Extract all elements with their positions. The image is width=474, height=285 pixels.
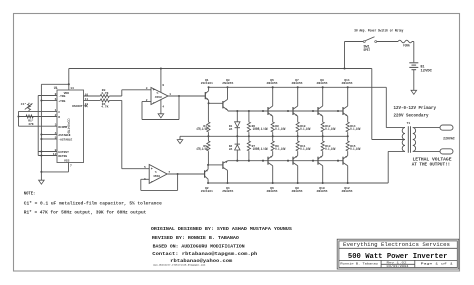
ground left [40, 172, 42, 180]
node Q12 base [337, 160, 339, 162]
potentiometer R2 [28, 103, 31, 112]
svg-text:Page 1 of 1: Page 1 of 1 [421, 262, 453, 266]
svg-text:4.7K: 4.7K [101, 106, 108, 109]
svg-text:2SC1061: 2SC1061 [201, 82, 213, 85]
svg-text:5: 5 [144, 166, 146, 169]
wire pin 3 row [19, 125, 58, 127]
svg-text:2SC1061: 2SC1061 [201, 190, 213, 193]
battery B1 [409, 62, 418, 64]
svg-text:4558: 4558 [155, 95, 162, 99]
node Q5 base [262, 110, 264, 112]
transistor Q7 2N3055 [292, 107, 294, 115]
resistor R1* [26, 115, 33, 118]
wire collector bus bottom to primary [388, 151, 405, 183]
diode D1 [236, 111, 238, 122]
ground op-amp A [158, 114, 164, 118]
wire +12V rail [69, 68, 372, 70]
wire secondary top lead [413, 127, 440, 129]
wire Q2 emitter to Q4 base [208, 164, 223, 166]
node Q3 collector junction [226, 86, 228, 88]
node D1 bottom [236, 135, 238, 137]
wire RC left vertical [18, 111, 20, 126]
resistor R14 emitter upper [347, 116, 349, 121]
wire VDD drop to pin 14 [68, 69, 70, 91]
svg-text:-TRG: -TRG [58, 95, 65, 98]
transistor Q3 2N3055 [222, 101, 224, 108]
svg-text:ORIGINAL DESIGNED BY: SYED ASH: ORIGINAL DESIGNED BY: SYED ASHAD MUSTAFA… [151, 226, 292, 232]
node pin9 junction [40, 150, 42, 152]
node Q5 collector [272, 86, 274, 88]
wire collector bus bottom [208, 182, 388, 184]
node ground junction [40, 171, 42, 173]
wire op-amp A output [168, 95, 205, 97]
svg-text:2A: 2A [229, 148, 233, 151]
wire pin 4 stub [41, 134, 57, 136]
wire ground mid bus [180, 135, 348, 137]
svg-text:+TRG: +TRG [58, 100, 65, 103]
svg-text:4: 4 [162, 106, 164, 109]
wire Q1 emitter to Q3 base [209, 102, 223, 104]
svg-text:C: C [58, 111, 60, 114]
svg-text:2N3055: 2N3055 [317, 82, 328, 85]
node VDD branch junction [68, 83, 70, 85]
resistor R7 [248, 151, 250, 160]
svg-text:2N3055: 2N3055 [267, 190, 278, 193]
node Q7 base [287, 110, 289, 112]
switch SW1 [345, 41, 364, 43]
node R6 bottom [248, 135, 250, 137]
node R7 top [248, 160, 250, 162]
node D2 top [236, 160, 238, 162]
svg-text:0.1,10W: 0.1,10W [325, 128, 336, 132]
transistor Q11 2N3055 [342, 107, 344, 115]
wire pin 7 to ground bus [41, 163, 68, 172]
svg-text:2N3055: 2N3055 [292, 82, 303, 85]
node rail opamp junction [160, 67, 162, 69]
svg-text:47R,1/4W: 47R,1/4W [196, 127, 208, 132]
wire R4 to op-amp B [109, 100, 149, 168]
node mid R10 [297, 135, 299, 137]
node mid R8 [272, 135, 274, 137]
resistor R5 driver lower [207, 151, 209, 165]
diode D2 [236, 150, 238, 161]
transistor Q9 2N3055 [317, 107, 319, 115]
svg-text:+: + [153, 89, 155, 93]
svg-text:EXTRST: EXTRST [58, 151, 69, 154]
svg-text:30 Amp. Power Switch or Relay: 30 Amp. Power Switch or Relay [354, 28, 403, 33]
svg-text:0.1,10W: 0.1,10W [275, 128, 286, 132]
svg-text:2N3055: 2N3055 [222, 82, 233, 85]
svg-text:7: 7 [70, 164, 72, 167]
wire battery to ground [413, 70, 415, 91]
wire op-amp A inverting input [142, 101, 151, 103]
transistor Q8 2N3055 [292, 157, 294, 165]
node pin5 junction [40, 138, 42, 140]
svg-text:0.1,10W: 0.1,10W [300, 148, 311, 152]
node Q1 collector junction [208, 86, 210, 88]
wire collector bus top [209, 86, 387, 88]
node mid R14 [347, 135, 349, 137]
node rail-switch junction [343, 67, 345, 69]
svg-text:03/03/2004: 03/03/2004 [387, 264, 409, 268]
node mid R12 [322, 135, 324, 137]
svg-text:0.1,10W: 0.1,10W [325, 148, 336, 152]
node Q4 collector junction [226, 182, 228, 184]
svg-text:Rev 1.02: Rev 1.02 [387, 262, 407, 265]
node Q2 collector junction [207, 182, 209, 184]
transistor Q4 2N3055 [222, 161, 224, 169]
svg-text:2N3055: 2N3055 [267, 82, 278, 85]
wire left bus A [37, 96, 39, 156]
wire secondary bottom lead [413, 150, 440, 152]
wire op-amp A feedback [142, 96, 179, 120]
fuse F30A [398, 40, 412, 43]
node Q10 collector [322, 182, 324, 184]
svg-text:-ASTABLE: -ASTABLE [58, 139, 72, 142]
resistor R13 emitter lower [322, 151, 324, 155]
svg-text:NOTE:: NOTE: [24, 192, 36, 197]
svg-text:+: + [151, 168, 153, 172]
node op-amp A output junction [178, 95, 180, 97]
resistor R6 [248, 111, 250, 122]
svg-text:8: 8 [162, 84, 164, 87]
transistor Q2 2SC1061 [204, 170, 206, 177]
op-amp U2B [149, 165, 167, 184]
wire op-amp B inverting input [141, 178, 149, 180]
wire pin 11 row [84, 99, 101, 101]
terminal output top [440, 125, 453, 130]
resistor R3 [100, 94, 109, 97]
wire center tap riser [372, 69, 405, 140]
resistor R9 emitter lower [272, 151, 274, 155]
wire pin 1 row [19, 110, 58, 112]
resistor R10 emitter upper [297, 116, 299, 121]
resistor R8 emitter upper [272, 116, 274, 121]
wire switch riser [344, 42, 346, 69]
wire left bus B (VDD side) [40, 84, 42, 172]
svg-text:VSS: VSS [64, 159, 70, 162]
wire op-amp A V+ riser [160, 69, 162, 93]
node Q6 base [262, 160, 264, 162]
pin 13 no-connect X [84, 105, 87, 107]
resistor R11 emitter lower [297, 151, 299, 155]
transistor Q6 2N3055 [267, 157, 269, 165]
node Q10 base [312, 160, 314, 162]
node Q12 collector [347, 182, 349, 184]
wire pin 12 stub [38, 155, 57, 157]
svg-text:Ronnie B. Tabanao: Ronnie B. Tabanao [340, 262, 378, 266]
title block cell divider left [380, 260, 382, 267]
node Q8 base [287, 160, 289, 162]
svg-text:220V Secondary: 220V Secondary [394, 114, 429, 119]
wire collector bus top to primary [386, 87, 405, 127]
svg-text:-: - [153, 101, 155, 105]
wire pin 2 row [19, 116, 58, 118]
resistor R15 emitter lower [347, 151, 349, 155]
wire pin 9 stub [38, 151, 57, 153]
node D1 top [236, 110, 238, 112]
wire VDD branch to left bus [41, 83, 68, 85]
wire op-amp B output [167, 173, 205, 175]
resistor R4 [100, 99, 109, 102]
transformer T1 secondary winding [413, 128, 416, 152]
svg-text:C1*: C1* [21, 102, 27, 106]
node Q2 emitter junction [207, 164, 209, 166]
svg-text:3: 3 [146, 87, 148, 90]
svg-text:47R,1/4W: 47R,1/4W [196, 147, 208, 152]
node Q11 collector [347, 86, 349, 88]
node Q9 collector [322, 86, 324, 88]
svg-text:4.7K: 4.7K [101, 92, 108, 95]
svg-text:U1: U1 [54, 86, 58, 90]
svg-text:100R,1/4W: 100R,1/4W [253, 147, 269, 152]
svg-text:-: - [151, 180, 153, 184]
wire ground mid stem [179, 136, 181, 139]
node Q7 collector [297, 86, 299, 88]
node pin4 junction [40, 133, 42, 135]
svg-text:12V-0-12V Primary: 12V-0-12V Primary [394, 106, 437, 111]
title block inner box [339, 241, 457, 268]
title block cell divider right [414, 260, 416, 267]
svg-text:2N3055: 2N3055 [342, 82, 353, 85]
svg-text:0.1,10W: 0.1,10W [350, 148, 361, 152]
transistor Q10 2N3055 [317, 157, 319, 165]
svg-text:RCOMM: RCOMM [58, 126, 67, 129]
node Q11 base [337, 110, 339, 112]
svg-text:Contact: rbtabanao@tapgsm.com.: Contact: rbtabanao@tapgsm.com.ph [152, 251, 257, 257]
svg-text:REVISED BY: RONNIE B. TABANAO: REVISED BY: RONNIE B. TABANAO [152, 235, 239, 241]
svg-text:Everything Electronics Service: Everything Electronics Services [343, 241, 450, 248]
svg-text:R: R [58, 116, 60, 119]
svg-text:2N3055: 2N3055 [342, 190, 353, 193]
svg-text:0.1,10W: 0.1,10W [300, 128, 311, 132]
svg-text:2N3055: 2N3055 [222, 190, 233, 193]
svg-text:220VAC: 220VAC [443, 136, 455, 140]
wire op-amp A V- stem [160, 100, 162, 114]
svg-text:2A: 2A [229, 128, 233, 131]
op-amp U2A [151, 88, 168, 105]
title block rev divider [381, 263, 415, 265]
svg-text:4558: 4558 [153, 174, 160, 178]
svg-text:14: 14 [70, 87, 74, 90]
svg-text:2N3055: 2N3055 [292, 190, 303, 193]
svg-text:RETRG: RETRG [58, 155, 67, 158]
node Q8 collector [297, 182, 299, 184]
svg-text:100R,1/4W: 100R,1/4W [253, 127, 269, 132]
svg-text:AT THE OUTPUT!!: AT THE OUTPUT!! [412, 162, 451, 167]
node Q6 collector [272, 182, 274, 184]
wire fuse to battery [412, 42, 414, 63]
title block row divider 1 [339, 247, 457, 249]
svg-text:47K: 47K [28, 123, 34, 126]
transformer T1 primary winding [402, 128, 405, 152]
node pin6 junction [40, 99, 42, 101]
svg-text:SPST: SPST [364, 49, 371, 53]
node RC common [17, 115, 19, 117]
wire pin 8 to bus A [38, 95, 57, 97]
transistor Q5 2N3055 [267, 107, 269, 115]
ground below battery [411, 90, 417, 94]
transistor Q12 2N3055 [342, 157, 344, 165]
svg-text:C1* = 0.1 uF metalized-film ca: C1* = 0.1 uF metalized-film capacitor, 5… [24, 202, 162, 207]
title block row divider 2 [339, 259, 457, 261]
node op-amp B output junction [177, 173, 179, 175]
transistor Q1 2SC1061 [204, 92, 206, 99]
svg-text:500 Watt Power Inverter: 500 Watt Power Inverter [348, 253, 448, 261]
svg-text:OSCOUT: OSCOUT [72, 105, 83, 108]
node Q1 emitter junction [208, 102, 210, 104]
svg-text:T1: T1 [407, 122, 411, 125]
wire op-amp B feedback [141, 174, 178, 190]
wire base bus upper [228, 110, 344, 112]
svg-text:www.ebenezer-elektronik.blogsp: www.ebenezer-elektronik.blogspot.com [153, 264, 206, 267]
op IC U1 4047BC body [57, 90, 84, 163]
node R6 top [248, 110, 250, 112]
node Q9 base [312, 110, 314, 112]
wire pin 6 to bus B [41, 100, 57, 102]
resistor R12 emitter upper [322, 116, 324, 121]
wire R3 to op-amp A [109, 90, 151, 96]
svg-text:BASED ON: AUDIOGURU MODIFICATI: BASED ON: AUDIOGURU MODIFICATION [153, 243, 245, 249]
transformer core [408, 126, 410, 153]
wire pin 5 stub [41, 138, 57, 140]
title block outer box [337, 239, 459, 269]
node pin12 junction [40, 154, 42, 156]
wire pin 10 row [84, 95, 101, 97]
node mid R4 [207, 135, 209, 137]
svg-text:2N3055: 2N3055 [317, 190, 328, 193]
wire base bus lower [228, 160, 344, 162]
svg-text:R1* = 47K for 50Hz output, 39K: R1* = 47K for 50Hz output, 39K for 60Hz … [24, 211, 147, 216]
wire switch to fuse [377, 41, 398, 43]
resistor R4a driver upper [207, 104, 209, 122]
svg-text:0.1,10W: 0.1,10W [350, 128, 361, 132]
svg-text:12VDC: 12VDC [421, 68, 433, 72]
svg-text:0.1,10W: 0.1,10W [275, 148, 286, 152]
svg-text:ASTABLE: ASTABLE [58, 134, 70, 137]
svg-text:F30A: F30A [403, 44, 410, 48]
terminal output bottom [440, 149, 453, 154]
ground mid bus [177, 140, 183, 144]
